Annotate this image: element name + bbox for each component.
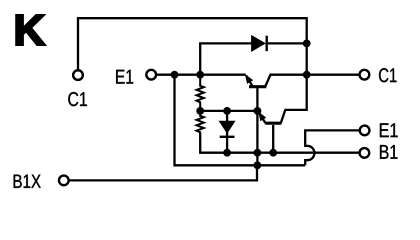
wire: E1 vertical + bottom emitter rail [175, 75, 306, 166]
transistor Q1 [245, 74, 307, 111]
wire: E1-left horizontal rail [156, 74, 246, 76]
wire: node row between resistors [200, 110, 257, 112]
node dot bus / C1-right [303, 71, 311, 79]
terminal E1 left [146, 70, 156, 80]
node dot emitter rail / base column [254, 162, 262, 170]
wire: base column B1X up to Q1 base [256, 111, 258, 165]
wire: C1-left stem, top rail, collector bus, T2 collector lead [78, 18, 307, 123]
node dot R1/R2 [196, 107, 204, 115]
node dot E1 rail / vertical [171, 71, 179, 79]
wire: R2 bottom + B1 rail to right [200, 133, 359, 153]
transistor Q2 [259, 112, 282, 153]
resistor R2 [197, 111, 204, 133]
wire: diode D1 cathode side to bus [268, 42, 307, 44]
diode D2 vertical branch [220, 111, 235, 153]
wire: B1X lead [69, 165, 258, 180]
node dot D2 bottom [223, 149, 231, 157]
terminal C1 left [73, 70, 83, 80]
wire: E1-right lead with hop over B1 wire [305, 130, 360, 165]
label C1 left [68, 92, 87, 106]
node dot B1 rail / base column [254, 149, 262, 157]
label E1 left [116, 70, 133, 84]
node dot D2 top [223, 107, 231, 115]
node dot B1 rail / Q2 base [269, 149, 277, 157]
diode D1 [252, 36, 267, 51]
label B1 right [380, 145, 397, 159]
label C1 right [379, 68, 396, 82]
terminal C1 right [360, 70, 370, 80]
terminal B1 right [360, 148, 370, 158]
label E1 right [380, 123, 398, 137]
node dot bus / D1 [303, 40, 311, 48]
resistor R1 [197, 75, 204, 111]
terminal E1 right [360, 126, 370, 136]
wire: C1-right lead [307, 74, 360, 76]
wire: diode D1 anode side down to E1 rail [200, 43, 251, 74]
terminal B1X [59, 176, 69, 186]
node dot Q1 base / Q2 emitter [254, 107, 262, 115]
logo K [16, 15, 44, 45]
node dot E1 rail / R1 [196, 71, 204, 79]
label B1X [14, 175, 41, 188]
